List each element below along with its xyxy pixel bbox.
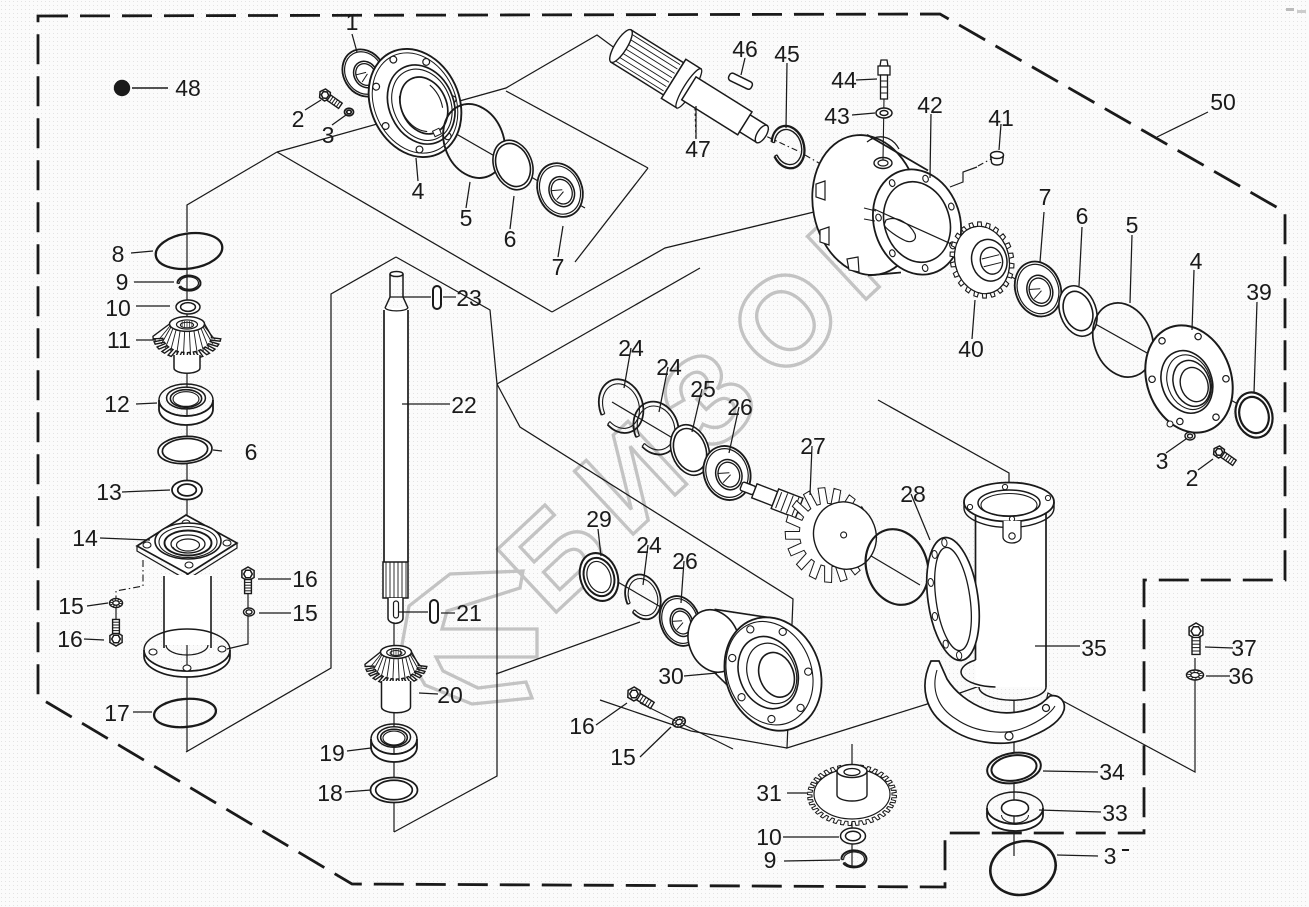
svg-text:22: 22 <box>451 392 477 418</box>
svg-text:4: 4 <box>412 178 425 204</box>
key 46 <box>727 72 753 90</box>
svg-text:6: 6 <box>245 439 258 465</box>
dotted leader 47 <box>695 108 696 139</box>
svg-text:5: 5 <box>460 205 473 231</box>
washer 3 right <box>1185 432 1195 440</box>
o-ring 28 <box>856 521 938 613</box>
svg-text:14: 14 <box>72 525 98 551</box>
ring 39 <box>1230 388 1278 443</box>
screw 2 right <box>1214 446 1237 465</box>
gear housing 42 body <box>866 136 930 276</box>
svg-text:2: 2 <box>1186 465 1199 491</box>
scan artifact top right <box>1286 8 1294 11</box>
dash-dot line to washer 15 <box>116 560 143 601</box>
screw 2 <box>320 89 343 108</box>
spur gear 31 <box>808 765 897 826</box>
o-ring 3 bottom <box>985 834 1062 901</box>
assembly axis lines <box>345 70 585 208</box>
washer 43 <box>876 108 892 118</box>
snap ring 24b <box>626 395 686 461</box>
flange 4 right <box>1131 313 1248 445</box>
o-ring 17 <box>153 696 217 729</box>
svg-text:15: 15 <box>58 593 84 619</box>
washer 3 <box>345 108 354 116</box>
svg-text:21: 21 <box>456 600 482 626</box>
axis line through housing to gear 40 <box>874 209 1000 266</box>
seal ring 13 <box>172 481 202 500</box>
svg-text:27: 27 <box>800 433 826 459</box>
svg-text:9: 9 <box>116 269 129 295</box>
dash-dot axis circlip 45 to housing <box>805 155 845 178</box>
svg-text:31: 31 <box>756 780 782 806</box>
svg-text:41: 41 <box>988 105 1014 131</box>
washer 33 <box>987 808 1043 831</box>
oil plug on 42 <box>874 158 892 169</box>
shaft of pinion 27 <box>738 476 803 518</box>
svg-text:3: 3 <box>322 122 335 148</box>
svg-text:15: 15 <box>610 744 636 770</box>
ring 10 mid <box>841 828 866 844</box>
snap ring 9 mid <box>841 850 866 867</box>
svg-text:10: 10 <box>105 295 131 321</box>
svg-text:33: 33 <box>1102 800 1128 826</box>
svg-text:42: 42 <box>917 92 943 118</box>
flange 14 <box>137 515 237 574</box>
ring 6 right <box>1052 280 1104 341</box>
svg-text:39: 39 <box>1246 279 1272 305</box>
svg-text:16: 16 <box>292 566 318 592</box>
svg-text:24: 24 <box>656 354 682 380</box>
gasket ellipse 5 right <box>1083 294 1163 385</box>
bullet item 48 <box>114 80 130 96</box>
svg-text:17: 17 <box>104 700 130 726</box>
leader pin 23 <box>390 296 431 298</box>
svg-text:34: 34 <box>1099 759 1125 785</box>
ring 6 <box>486 134 540 196</box>
svg-text:48: 48 <box>175 75 201 101</box>
ring 25 <box>664 419 717 481</box>
top flange of 35 <box>964 483 1054 522</box>
pin 21 <box>430 600 438 623</box>
bearing 26a <box>696 439 758 506</box>
plug 41 <box>991 155 1004 165</box>
svg-text:26: 26 <box>727 394 753 420</box>
superscript minus after bottom 3 <box>1122 849 1129 851</box>
watermark BIZON logo and text <box>402 161 944 704</box>
bolt 16 mid <box>628 687 654 709</box>
svg-text:18: 18 <box>317 780 343 806</box>
svg-text:4: 4 <box>1190 248 1203 274</box>
bearing 7 right <box>1007 255 1068 323</box>
svg-text:28: 28 <box>900 481 926 507</box>
bolt 37 <box>1189 623 1203 654</box>
svg-text:19: 19 <box>319 740 345 766</box>
svg-text:12: 12 <box>104 391 130 417</box>
svg-text:23: 23 <box>456 285 482 311</box>
svg-text:11: 11 <box>107 327 131 353</box>
bevel gear 20 <box>365 652 427 685</box>
svg-text:26: 26 <box>672 548 698 574</box>
svg-text:8: 8 <box>112 241 125 267</box>
svg-text:43: 43 <box>824 103 850 129</box>
bearing 12 <box>159 400 213 425</box>
svg-text:36: 36 <box>1228 663 1254 689</box>
pin 23 <box>433 286 441 309</box>
washer 15 mid <box>671 715 687 729</box>
bevel pinion 27 <box>772 474 888 594</box>
bearing case 30 <box>714 611 775 730</box>
gear housing 42 flange <box>860 158 975 286</box>
bevel gear 11 <box>153 324 221 359</box>
svg-text:6: 6 <box>1076 203 1089 229</box>
ring 6 left <box>157 435 213 466</box>
hole on flange 4r <box>1167 421 1173 427</box>
tube body 35 <box>976 505 1047 687</box>
seal 29 <box>573 548 625 607</box>
svg-text:3: 3 <box>1156 448 1169 474</box>
svg-text:30: 30 <box>658 663 684 689</box>
bolt 16 left <box>110 619 122 646</box>
label leader lines <box>352 34 357 52</box>
svg-text:40: 40 <box>958 336 984 362</box>
svg-text:44: 44 <box>831 67 857 93</box>
svg-text:29: 29 <box>586 506 612 532</box>
input shaft 47 <box>606 27 771 145</box>
svg-text:24: 24 <box>618 335 644 361</box>
svg-text:16: 16 <box>57 626 83 652</box>
svg-text:47: 47 <box>685 136 711 162</box>
svg-text:2: 2 <box>292 106 305 132</box>
ring 34 <box>985 749 1043 786</box>
dash-dot line to plug 41 <box>978 159 991 166</box>
snap ring 24c <box>619 569 667 624</box>
bearing 7 <box>529 156 590 223</box>
svg-text:7: 7 <box>1039 184 1052 210</box>
leader pin 21 <box>398 611 428 613</box>
svg-text:7: 7 <box>552 254 565 280</box>
svg-text:6: 6 <box>504 226 517 252</box>
flange 4 <box>351 34 478 173</box>
ring 10 <box>176 300 200 314</box>
circlip 45 <box>767 122 809 172</box>
dash-dot axis shaft 47 to circlip 45 <box>755 131 800 152</box>
bracket on 42 <box>950 167 977 187</box>
svg-text:13: 13 <box>96 479 122 505</box>
svg-text:9: 9 <box>764 847 777 873</box>
svg-text:16: 16 <box>569 713 595 739</box>
svg-text:3: 3 <box>1104 843 1117 869</box>
snap ring 9 <box>177 276 200 291</box>
svg-text:20: 20 <box>437 682 463 708</box>
tab on 35 <box>1003 521 1021 543</box>
svg-text:25: 25 <box>690 376 716 402</box>
svg-text:37: 37 <box>1231 635 1257 661</box>
snap ring 24a <box>592 373 651 439</box>
svg-text:1: 1 <box>346 9 359 35</box>
gasket ellipse 5 <box>432 95 515 188</box>
bearing 26b <box>653 590 707 651</box>
bearing 19 <box>371 739 417 762</box>
svg-text:45: 45 <box>774 41 800 67</box>
support tube of 14 <box>164 575 211 645</box>
washer 15 left <box>110 599 123 608</box>
ring 18 <box>371 778 418 803</box>
svg-text:24: 24 <box>636 532 662 558</box>
bearing 1 <box>334 42 394 105</box>
line 44 to plug <box>883 98 884 160</box>
washer 36 <box>1187 670 1204 680</box>
svg-text:35: 35 <box>1081 635 1107 661</box>
foot of 35 <box>925 661 1064 743</box>
svg-text:46: 46 <box>732 36 758 62</box>
bolt 16 right <box>242 567 254 594</box>
svg-text:15: 15 <box>292 600 318 626</box>
svg-text:5: 5 <box>1126 212 1139 238</box>
shaft 22 <box>384 308 408 563</box>
svg-text:50: 50 <box>1210 89 1236 115</box>
side flange of 35 <box>920 534 987 664</box>
shim ellipse 8 <box>153 229 224 273</box>
gear 40 <box>942 215 1022 305</box>
washer 15 right <box>244 608 255 616</box>
fence partition lines <box>277 35 620 152</box>
grease fitting 44 <box>880 60 888 66</box>
